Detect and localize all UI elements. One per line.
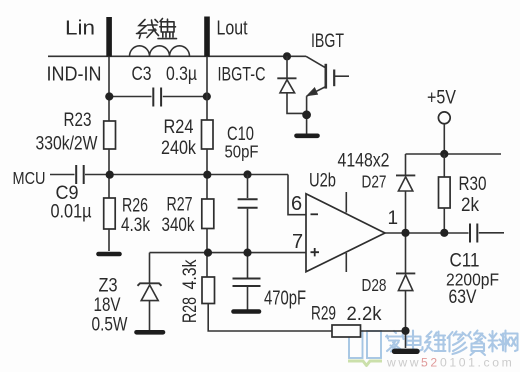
transistor IBGT [306,56,349,112]
svg-text:0.01µ: 0.01µ [51,202,92,223]
watermark text 家电维修資料网 [386,331,518,356]
svg-text:2k: 2k [461,195,479,216]
op-amp plus sign [311,248,320,256]
svg-text:0.3µ: 0.3µ [166,64,197,85]
resistor R27 [202,199,214,229]
svg-text:IBGT-C: IBGT-C [218,65,266,86]
svg-text:+5V: +5V [427,88,456,109]
capacitor 50pF (C10) [238,199,258,207]
diode D27 [396,154,415,233]
wire R23 to MCU row [108,149,110,198]
op-amp minus sign [311,213,319,215]
watermark logo open book [348,331,382,366]
gate bar [333,70,335,87]
wire Lin column upper [108,56,110,121]
wire MCU row [50,174,288,176]
node C10 top junction [243,170,251,178]
svg-text:MCU: MCU [13,168,46,188]
svg-text:63V: 63V [449,287,477,308]
node R24 MCU-row junction [203,171,211,179]
node R27/pin7 junction [204,249,212,257]
ground under 470pF [234,309,260,314]
node R23/C9 junction [106,171,114,179]
ground under R26 [99,252,120,257]
wire R24 to MCU row [206,149,208,199]
ground under D28 [395,349,418,354]
svg-text:U2b: U2b [309,171,336,192]
svg-text:330k/2W: 330k/2W [36,134,98,155]
svg-text:0.5W: 0.5W [92,315,128,336]
wire R30 to output row [443,208,445,233]
wire R26 to ground [108,229,110,251]
svg-text:C11: C11 [450,251,480,272]
svg-text:D28: D28 [362,275,387,295]
svg-text:C3: C3 [132,64,152,85]
resistor R23 [104,121,116,149]
svg-text:Lin: Lin [65,18,95,40]
capacitor C3 [153,88,161,107]
svg-text:0101.com: 0101.com [440,356,514,370]
node D28/R29 junction [401,327,409,335]
resistor R30 [443,154,445,177]
wire C11 out [479,232,504,234]
emitter wire down [306,96,308,112]
wire op-amp output [385,232,469,234]
svg-text:Lout: Lout [217,18,248,40]
collector lead [306,56,326,68]
ground under IBGT [297,134,318,139]
node emitter junction [302,110,311,119]
node top-rail/diode junction [283,52,291,60]
svg-text:1: 1 [388,208,399,229]
wire IND-IN top rail [48,55,306,57]
svg-text:R24: R24 [164,117,194,138]
wire R29 to D28 node [361,330,406,332]
emitter arrow [308,88,317,95]
svg-text:4.3k: 4.3k [180,259,201,289]
wire C10 cap to pin7 row [247,209,249,278]
capacitor C11 [470,224,477,243]
resistor R29 [332,325,361,337]
watermark url www.520101.com [386,356,514,370]
wire emitter to ground [306,119,308,135]
node output/D28 junction [401,229,409,237]
capacitor C9 [76,165,84,184]
svg-text:D27: D27 [362,172,387,192]
svg-text:18V: 18V [94,295,121,316]
label 线盘 (coil) [137,19,177,39]
resistor R26 [104,198,116,229]
wire Lout column upper [206,56,208,120]
svg-text:R30: R30 [459,174,487,195]
svg-text:240k: 240k [161,138,196,159]
svg-text:4.3k: 4.3k [121,215,150,236]
terminal +5V circle [438,112,450,124]
svg-text:6: 6 [291,193,302,215]
svg-text:IBGT: IBGT [311,31,344,52]
svg-text:50pF: 50pF [225,142,259,162]
svg-text:2.2k: 2.2k [347,304,382,325]
terminal bar Lin [106,17,112,57]
capacitor 470pF [233,279,261,287]
wire C3 row [109,96,207,98]
svg-text:R29: R29 [311,304,336,325]
wire pin7 row [150,252,307,254]
wire +5V rail [406,153,502,155]
diode D28 [396,233,415,348]
inductor coil (3 humps) [130,46,190,57]
resistor R24 [202,120,214,149]
gate lead [334,75,349,77]
op-amp top power pin [345,192,347,213]
ground under Z3 [137,330,164,335]
svg-text:R23: R23 [64,110,92,131]
svg-text:7: 7 [292,231,303,253]
op-amp bottom power pin [345,253,347,272]
svg-text:340k: 340k [162,215,195,236]
channel bar [324,64,327,89]
wire 470pF to ground [247,287,249,311]
svg-text:52: 52 [421,356,440,370]
node Lout/C3 junction [203,92,211,100]
terminal bar Lout [204,17,210,57]
wire C10 column with capacitor [247,175,249,199]
svg-text:R26: R26 [122,196,148,217]
node +5V junction [440,150,448,158]
svg-text:IND-IN: IND-IN [47,64,102,86]
wire R28 bottom to R29 row [208,304,332,332]
op-amp U2b [306,194,385,272]
wire R27 to pin7 row [206,229,208,278]
emitter lead [307,87,326,97]
svg-text:Z3: Z3 [99,276,118,297]
wire +5V to rail [443,124,445,151]
wire pin6 feed [288,175,306,215]
svg-text:4148x2: 4148x2 [338,151,390,172]
svg-text:470pF: 470pF [264,288,306,310]
svg-text:R28: R28 [180,297,201,323]
node Lin/C3 junction [105,92,113,100]
zener Z3 [138,253,162,330]
resistor R28 [202,277,215,304]
node 470pF/pin7 junction [243,249,251,257]
freewheel diode (IGBT) [277,56,304,113]
svg-text:R27: R27 [167,195,193,216]
node output/R30 junction [440,229,448,237]
